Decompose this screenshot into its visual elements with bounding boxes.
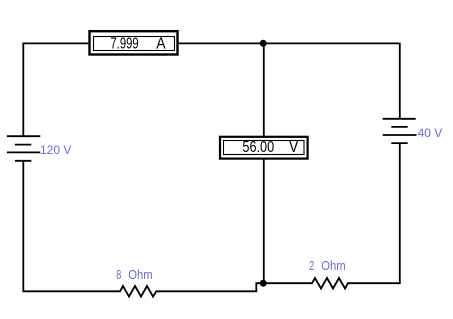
wire middle vertical branch bbox=[263, 43, 265, 283]
battery V1 short plate 1 bbox=[15, 144, 31, 146]
svg-text:8: 8 bbox=[116, 268, 121, 282]
battery V1 long plate 2 bbox=[7, 151, 40, 153]
svg-text:40 V: 40 V bbox=[418, 126, 443, 140]
battery V2 short plate 2 bbox=[391, 142, 407, 144]
svg-text:A: A bbox=[156, 36, 165, 53]
svg-text:V: V bbox=[289, 139, 298, 156]
voltmeter M2 inner box bbox=[224, 141, 305, 155]
voltmeter M2 outer box bbox=[220, 137, 308, 159]
battery V1 long plate 1 bbox=[7, 135, 40, 137]
svg-text:Ohm: Ohm bbox=[128, 267, 152, 282]
wire bottom loop with resistor zigzags bbox=[23, 143, 400, 297]
svg-text:120 V: 120 V bbox=[40, 143, 71, 157]
svg-text:2: 2 bbox=[309, 259, 314, 273]
svg-text:56.00: 56.00 bbox=[242, 139, 274, 156]
svg-text:7.999: 7.999 bbox=[110, 35, 138, 52]
battery V2 long plate 1 bbox=[383, 118, 416, 120]
node junction dot bottom bbox=[260, 280, 267, 287]
battery V1 short plate 2 bbox=[15, 160, 31, 162]
battery V2 long plate 2 bbox=[383, 134, 417, 136]
ammeter M1 inner box bbox=[94, 37, 175, 51]
wire top loop: left vertical, top horizontal, right vertical upper bbox=[23, 43, 400, 136]
node junction dot top bbox=[260, 40, 267, 47]
battery V2 short plate 1 bbox=[391, 126, 407, 128]
svg-text:Ohm: Ohm bbox=[321, 258, 345, 273]
ammeter M1 outer box bbox=[90, 31, 178, 54]
